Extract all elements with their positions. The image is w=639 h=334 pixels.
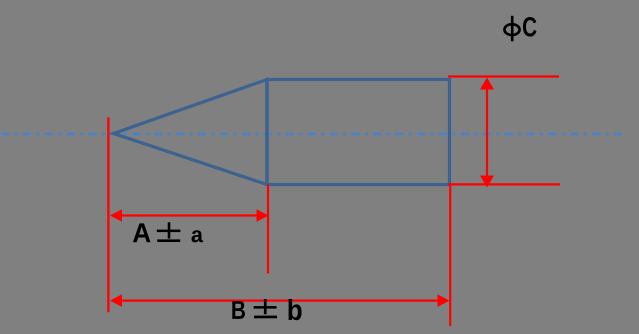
plus-minus symbol of B dimension — [254, 299, 277, 318]
diameter C bottom leader line — [448, 183, 560, 185]
label A — [133, 223, 151, 242]
label b (tolerance) — [289, 299, 302, 320]
body outline: cone tip triangle — [114, 80, 268, 185]
centerline (dash-dot axis) — [1, 133, 625, 135]
extension line at cone/cylinder junction — [267, 185, 269, 274]
extension line right (cylinder end datum) — [449, 185, 451, 327]
label C of phi-C — [523, 17, 536, 37]
dimension line B (double arrow) — [119, 300, 440, 302]
dimension line C vertical (double arrow) — [486, 87, 488, 178]
label phi symbol of phi-C — [504, 16, 519, 42]
plus-minus symbol of A dimension — [157, 222, 181, 242]
body outline: cylinder rectangle — [267, 80, 450, 185]
extension line left (tip datum) — [107, 117, 109, 312]
diameter C top leader line — [448, 75, 559, 77]
label a (tolerance) — [191, 230, 203, 242]
dimension line A (double arrow) — [119, 214, 258, 216]
label B — [232, 301, 245, 319]
